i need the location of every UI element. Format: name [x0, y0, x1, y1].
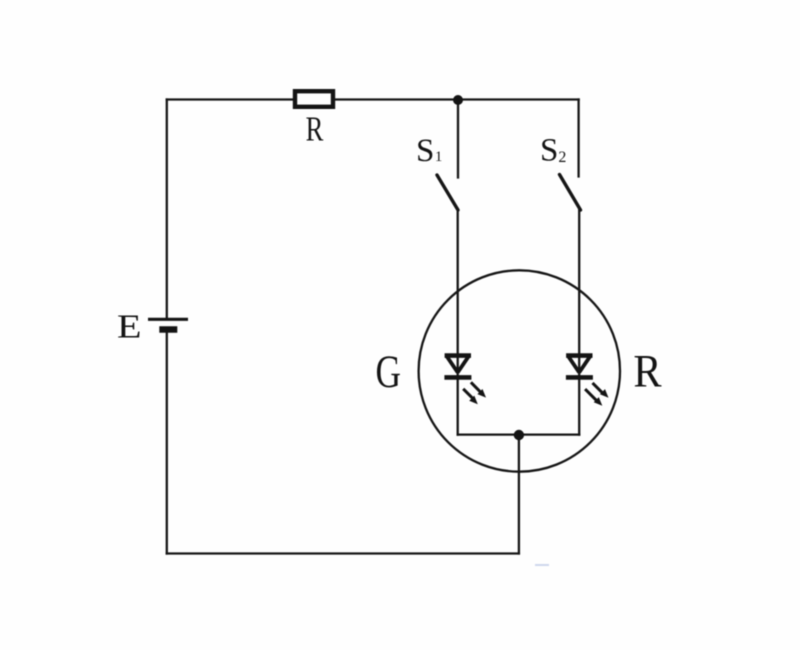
svg-text:G: G [375, 345, 400, 397]
wire left vertical (battery to bottom) [166, 332, 168, 554]
indicator lamp circle [419, 270, 620, 471]
wire top horizontal [167, 98, 579, 100]
wire inside-circle bottom horizontal [458, 433, 580, 435]
node junction dot top [453, 95, 463, 105]
LED R light arrow 1 [593, 383, 609, 398]
wire bottom horizontal [167, 552, 519, 554]
artifact faint blue mark [535, 564, 549, 566]
resistor R [295, 91, 333, 107]
svg-text:R: R [306, 109, 324, 148]
switch S2 blade [560, 175, 581, 211]
battery E short plate [159, 326, 177, 333]
svg-text:R: R [633, 344, 661, 397]
switch S1 blade [437, 175, 458, 210]
wire S1 through LED G to bottom node [457, 209, 459, 435]
LED G (diode symbol) [444, 356, 471, 378]
svg-text:S1: S1 [416, 133, 442, 169]
wire left vertical (top section to battery) [166, 100, 168, 319]
svg-text:E: E [117, 308, 142, 345]
wire S1 branch top lead [457, 100, 459, 178]
LED R light arrow 2 [585, 389, 602, 406]
LED G light arrow 1 [471, 382, 486, 397]
battery E long plate [148, 318, 188, 321]
wire S2 branch top lead [577, 100, 579, 177]
wire S2 through LED R to bottom node [578, 209, 580, 435]
LED G light arrow 2 [463, 389, 478, 404]
wire bottom junction riser [518, 435, 520, 554]
node junction dot bottom [514, 430, 524, 440]
LED R (diode symbol) [566, 356, 593, 378]
svg-text:S2: S2 [540, 133, 566, 169]
